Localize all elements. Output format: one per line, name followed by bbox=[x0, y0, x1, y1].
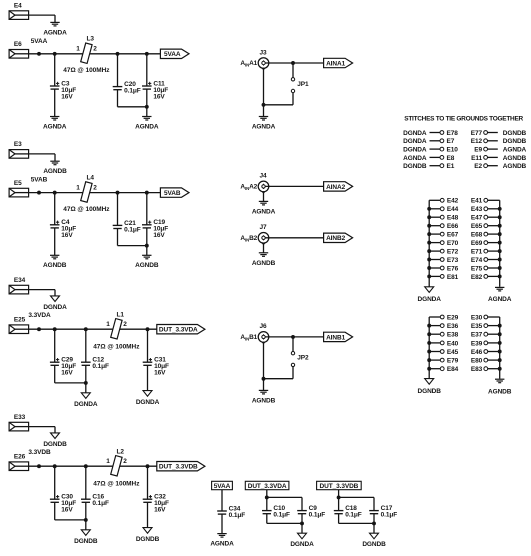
svg-text:E3: E3 bbox=[14, 141, 22, 148]
svg-text:DGNDA: DGNDA bbox=[403, 130, 427, 137]
svg-text:E33: E33 bbox=[14, 414, 26, 421]
svg-text:5VAB: 5VAB bbox=[31, 177, 48, 184]
svg-text:J4: J4 bbox=[259, 173, 267, 180]
svg-text:1: 1 bbox=[106, 458, 110, 465]
svg-text:AGNDA: AGNDA bbox=[43, 123, 67, 130]
svg-text:L4: L4 bbox=[87, 175, 95, 182]
svg-text:DGNDA: DGNDA bbox=[403, 147, 427, 154]
svg-text:AGNDA: AGNDA bbox=[252, 208, 276, 215]
svg-text:AGNDB: AGNDB bbox=[252, 397, 276, 404]
svg-text:16V: 16V bbox=[154, 507, 166, 514]
svg-text:E71: E71 bbox=[471, 249, 483, 256]
svg-text:DUT_3.3VDA: DUT_3.3VDA bbox=[159, 327, 198, 334]
svg-text:AGNDB: AGNDB bbox=[43, 262, 67, 269]
svg-text:0.1μF: 0.1μF bbox=[124, 226, 141, 233]
svg-text:E36: E36 bbox=[447, 323, 459, 330]
svg-text:E73: E73 bbox=[447, 257, 459, 264]
svg-text:DGNDA: DGNDA bbox=[74, 401, 98, 408]
svg-text:E70: E70 bbox=[447, 240, 459, 247]
svg-text:16V: 16V bbox=[61, 93, 73, 100]
svg-text:0.1μF: 0.1μF bbox=[309, 512, 326, 519]
svg-text:16V: 16V bbox=[61, 507, 73, 514]
svg-text:E48: E48 bbox=[447, 215, 459, 222]
svg-text:E47: E47 bbox=[471, 215, 483, 222]
svg-text:47Ω @ 100MHz: 47Ω @ 100MHz bbox=[63, 67, 110, 74]
svg-text:E45: E45 bbox=[447, 349, 459, 356]
svg-text:AGNDA: AGNDA bbox=[252, 124, 276, 131]
svg-text:E5: E5 bbox=[14, 180, 22, 187]
svg-text:5VAA: 5VAA bbox=[164, 51, 181, 58]
svg-text:AINA2: AINA2 bbox=[326, 184, 345, 191]
svg-text:16V: 16V bbox=[61, 232, 73, 239]
svg-text:E4: E4 bbox=[14, 2, 22, 9]
svg-text:DUT_3.3VDA: DUT_3.3VDA bbox=[248, 483, 287, 490]
svg-text:AGNDA: AGNDA bbox=[135, 123, 159, 130]
svg-text:47Ω @ 100MHz: 47Ω @ 100MHz bbox=[93, 480, 140, 487]
svg-text:JP1: JP1 bbox=[297, 81, 309, 88]
svg-text:E82: E82 bbox=[471, 274, 483, 281]
svg-text:DUT_3.3VDB: DUT_3.3VDB bbox=[320, 483, 359, 490]
svg-text:E83: E83 bbox=[471, 366, 483, 373]
svg-text:DGNDA: DGNDA bbox=[290, 541, 314, 548]
svg-text:E40: E40 bbox=[447, 340, 459, 347]
svg-text:E77: E77 bbox=[471, 130, 483, 137]
svg-text:E78: E78 bbox=[447, 130, 459, 137]
svg-text:L2: L2 bbox=[117, 448, 125, 455]
svg-text:0.1μF: 0.1μF bbox=[92, 500, 109, 507]
svg-text:E30: E30 bbox=[471, 314, 483, 321]
svg-text:2: 2 bbox=[123, 458, 127, 465]
svg-text:E39: E39 bbox=[471, 340, 483, 347]
svg-text:E29: E29 bbox=[447, 314, 459, 321]
svg-text:E81: E81 bbox=[447, 274, 459, 281]
svg-text:E72: E72 bbox=[447, 249, 459, 256]
svg-text:E74: E74 bbox=[471, 257, 483, 264]
svg-text:DGNDA: DGNDA bbox=[43, 304, 67, 311]
svg-text:DGNDA: DGNDA bbox=[136, 399, 160, 406]
svg-text:AGNDA: AGNDA bbox=[503, 147, 527, 154]
svg-text:E44: E44 bbox=[447, 206, 459, 213]
svg-text:16V: 16V bbox=[153, 93, 165, 100]
svg-text:47Ω @ 100MHz: 47Ω @ 100MHz bbox=[63, 206, 110, 213]
svg-text:0.1μF: 0.1μF bbox=[273, 512, 290, 519]
svg-text:AGNDA: AGNDA bbox=[488, 296, 512, 303]
svg-text:E80: E80 bbox=[471, 358, 483, 365]
svg-text:AGNDB: AGNDB bbox=[503, 163, 527, 170]
svg-text:E67: E67 bbox=[447, 232, 459, 239]
svg-text:2: 2 bbox=[123, 321, 127, 328]
svg-text:E75: E75 bbox=[471, 265, 483, 272]
svg-text:AGNDB: AGNDB bbox=[503, 155, 527, 162]
svg-text:47Ω @ 100MHz: 47Ω @ 100MHz bbox=[93, 343, 140, 350]
svg-text:E10: E10 bbox=[447, 147, 459, 154]
svg-text:E7: E7 bbox=[447, 138, 455, 145]
svg-text:E46: E46 bbox=[471, 349, 483, 356]
svg-text:AGNDB: AGNDB bbox=[135, 262, 159, 269]
svg-text:16V: 16V bbox=[154, 370, 166, 377]
svg-text:AINA1: AINA1 bbox=[326, 60, 345, 67]
svg-text:1: 1 bbox=[76, 184, 80, 191]
svg-text:2: 2 bbox=[93, 46, 97, 53]
svg-text:E8: E8 bbox=[447, 155, 455, 162]
svg-text:AGNDB: AGNDB bbox=[252, 260, 276, 267]
svg-text:E37: E37 bbox=[471, 332, 483, 339]
svg-text:E26: E26 bbox=[14, 454, 26, 461]
svg-text:E65: E65 bbox=[471, 223, 483, 230]
svg-text:DGNDA: DGNDA bbox=[418, 296, 442, 303]
svg-text:STITCHES TO TIE GROUNDS TOGETH: STITCHES TO TIE GROUNDS TOGETHER bbox=[404, 115, 523, 122]
svg-text:0.1μF: 0.1μF bbox=[124, 88, 141, 95]
svg-text:DUT_3.3VDB: DUT_3.3VDB bbox=[159, 464, 198, 471]
svg-text:J7: J7 bbox=[259, 224, 267, 231]
svg-text:J6: J6 bbox=[259, 323, 267, 330]
svg-text:E68: E68 bbox=[471, 232, 483, 239]
svg-text:AGNDA: AGNDA bbox=[210, 541, 234, 548]
svg-text:E66: E66 bbox=[447, 223, 459, 230]
svg-text:E84: E84 bbox=[447, 366, 459, 373]
svg-text:AINB2: AINB2 bbox=[326, 235, 345, 242]
svg-text:E12: E12 bbox=[471, 138, 483, 145]
svg-text:E69: E69 bbox=[471, 240, 483, 247]
svg-text:DGNDB: DGNDB bbox=[503, 130, 527, 137]
svg-text:2: 2 bbox=[93, 184, 97, 191]
svg-text:DGNDB: DGNDB bbox=[74, 538, 98, 545]
svg-text:AINA2: AINA2 bbox=[240, 184, 257, 191]
svg-text:DGNDB: DGNDB bbox=[136, 536, 160, 543]
svg-text:3.3VDA: 3.3VDA bbox=[28, 312, 51, 319]
svg-text:E11: E11 bbox=[471, 155, 482, 162]
svg-text:DGNDB: DGNDB bbox=[403, 163, 427, 170]
svg-text:5VAA: 5VAA bbox=[214, 483, 231, 490]
svg-text:JP2: JP2 bbox=[297, 355, 309, 362]
svg-text:AGNDB: AGNDB bbox=[488, 388, 512, 395]
svg-text:E76: E76 bbox=[447, 265, 459, 272]
svg-text:E1: E1 bbox=[447, 163, 455, 170]
svg-text:E9: E9 bbox=[474, 147, 482, 154]
svg-text:AGNDB: AGNDB bbox=[43, 168, 67, 175]
svg-text:DGNDB: DGNDB bbox=[362, 541, 386, 548]
svg-text:L3: L3 bbox=[87, 36, 95, 43]
svg-text:E35: E35 bbox=[471, 323, 483, 330]
svg-text:AINB2: AINB2 bbox=[240, 235, 257, 242]
svg-text:DGNDB: DGNDB bbox=[43, 441, 67, 448]
svg-text:0.1μF: 0.1μF bbox=[381, 512, 398, 519]
svg-text:E6: E6 bbox=[14, 41, 22, 48]
svg-text:E43: E43 bbox=[471, 206, 483, 213]
svg-text:E34: E34 bbox=[14, 277, 26, 284]
svg-text:AINB1: AINB1 bbox=[240, 334, 257, 341]
svg-text:E41: E41 bbox=[471, 198, 483, 205]
svg-text:0.1μF: 0.1μF bbox=[92, 363, 109, 370]
svg-text:DGNDA: DGNDA bbox=[403, 138, 427, 145]
svg-text:DGNDB: DGNDB bbox=[503, 138, 527, 145]
svg-text:5VAB: 5VAB bbox=[164, 190, 181, 197]
svg-text:E42: E42 bbox=[447, 198, 459, 205]
svg-text:16V: 16V bbox=[153, 232, 165, 239]
svg-text:3.3VDB: 3.3VDB bbox=[28, 449, 51, 456]
svg-text:16V: 16V bbox=[61, 370, 73, 377]
svg-text:E38: E38 bbox=[447, 332, 459, 339]
svg-text:J3: J3 bbox=[259, 49, 267, 56]
svg-text:DGNDB: DGNDB bbox=[418, 388, 442, 395]
svg-text:AGNDA: AGNDA bbox=[43, 29, 67, 36]
svg-text:0.1μF: 0.1μF bbox=[345, 512, 362, 519]
svg-text:5VAA: 5VAA bbox=[31, 38, 48, 45]
svg-text:1: 1 bbox=[106, 321, 110, 328]
svg-text:AINA1: AINA1 bbox=[240, 60, 257, 67]
svg-text:L1: L1 bbox=[117, 311, 125, 318]
svg-text:E79: E79 bbox=[447, 358, 459, 365]
svg-text:1: 1 bbox=[76, 46, 80, 53]
svg-text:AGNDA: AGNDA bbox=[403, 155, 427, 162]
svg-text:E25: E25 bbox=[14, 317, 26, 324]
svg-text:0.1μF: 0.1μF bbox=[229, 512, 246, 519]
svg-text:AINB1: AINB1 bbox=[326, 334, 345, 341]
svg-text:E2: E2 bbox=[474, 163, 482, 170]
